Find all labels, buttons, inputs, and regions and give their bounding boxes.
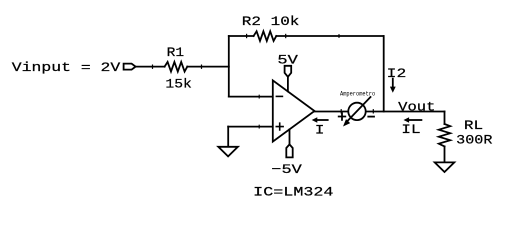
wire input to R1 [136, 66, 165, 68]
ammeter minus [368, 116, 374, 118]
wire R1 to junction [187, 66, 229, 68]
pin tick [201, 65, 203, 68]
wire top to R2 [229, 35, 254, 37]
svg-text:Vout: Vout [398, 99, 435, 114]
svg-text:R2 10k: R2 10k [242, 14, 300, 29]
ground [435, 162, 455, 172]
wire down to ground [227, 127, 229, 147]
svg-text:RL: RL [464, 118, 483, 133]
pin tick [258, 125, 260, 128]
wire 5V to op-amp [287, 77, 289, 92]
pin tick [246, 34, 248, 37]
wire to non-inverting input [228, 126, 273, 128]
current arrow I [317, 119, 328, 121]
svg-text:5V: 5V [277, 53, 298, 68]
op-amp U1 [273, 80, 315, 141]
svg-text:300R: 300R [456, 133, 492, 148]
svg-text:−5V: −5V [271, 162, 302, 177]
pin tick [340, 110, 342, 113]
wire right vertical (feedback) [383, 36, 385, 112]
node junction vertical wire [228, 36, 230, 97]
svg-text:I: I [315, 122, 325, 137]
ground [218, 147, 238, 157]
ammeter plus [339, 113, 346, 120]
current arrow I2 [392, 79, 394, 87]
plus sign non-inverting input [276, 123, 283, 130]
wire Vout node down to RL [444, 112, 446, 125]
wire to inverting input [229, 96, 273, 98]
pin tick [372, 110, 374, 113]
svg-text:15k: 15k [165, 77, 192, 92]
current arrow IL [409, 119, 421, 121]
svg-text:IL: IL [401, 122, 420, 137]
ammeter [348, 103, 365, 120]
svg-text:Vinput = 2V: Vinput = 2V [12, 60, 121, 75]
resistor R1 [165, 62, 188, 72]
wire RL to ground [444, 146, 446, 162]
svg-text:I2: I2 [387, 66, 407, 81]
pin tick [285, 34, 287, 37]
svg-text:IC=LM324: IC=LM324 [253, 184, 334, 199]
pin tick [338, 35, 340, 38]
ammeter arrow [348, 97, 371, 121]
resistor RL [439, 124, 450, 146]
wire R2 to right corner [276, 35, 383, 37]
input port connector [124, 64, 136, 70]
pin tick [258, 95, 260, 98]
svg-text:R1: R1 [167, 45, 185, 60]
minus sign inverting input [276, 95, 282, 97]
wire op-amp output to ammeter [315, 111, 348, 113]
resistor R2 [254, 31, 277, 41]
pin tick [152, 65, 154, 68]
wire -5V to op-amp [289, 130, 291, 145]
svg-text:Amperometro: Amperometro [340, 90, 376, 97]
supply pin -5V flag [286, 144, 292, 157]
supply pin 5V flag [285, 66, 292, 77]
wire ammeter to output node [366, 111, 444, 113]
